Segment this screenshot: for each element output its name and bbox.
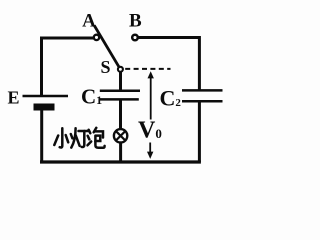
contact A circle [94, 35, 99, 40]
svg-text:E: E [7, 88, 19, 108]
capacitor C2 plates [182, 90, 223, 101]
battery E long positive plate [23, 95, 69, 98]
svg-text:C1: C1 [81, 84, 102, 108]
capacitor C1 plates [99, 91, 140, 100]
svg-text:B: B [129, 11, 142, 32]
dashed reference line from S [125, 68, 170, 70]
wire bottom horizontal [40, 160, 201, 163]
battery E short thick negative plate [34, 104, 55, 111]
svg-text:V0: V0 [138, 118, 162, 144]
switch S pivot circle [118, 67, 123, 72]
wire capacitor C1 bottom plate to lamp [119, 100, 122, 130]
voltage arrow down [147, 143, 153, 159]
wire battery negative to bottom-left corner [40, 110, 43, 162]
label 小灯泡 (hand-drawn strokes) [54, 128, 104, 148]
contact B circle [132, 35, 138, 41]
wire top-left: left vertical upper segment and top horizontal to contact A [42, 38, 94, 96]
svg-text:C2: C2 [160, 86, 182, 111]
lamp bulb symbol (circle with X) [114, 129, 127, 142]
char 灯 [71, 128, 89, 147]
wire lamp to bottom wire [119, 143, 122, 163]
switch blade from S pivot toward A [94, 25, 120, 69]
wire capacitor C2 bottom plate to bottom wire [198, 102, 201, 163]
svg-text:S: S [100, 57, 110, 77]
char 泡 [88, 128, 105, 148]
char 小 [54, 128, 68, 147]
wire contact B to top-right corner down to capacitor C2 [138, 38, 199, 91]
wire switch S down to capacitor C1 top plate [119, 70, 122, 90]
svg-text:A: A [82, 10, 96, 31]
voltage arrow up [148, 71, 154, 119]
